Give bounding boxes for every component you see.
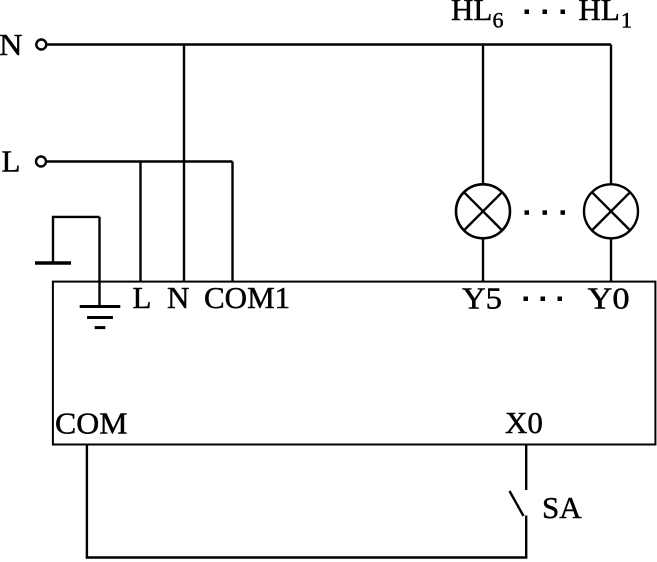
svg-text:X0: X0 [505, 405, 543, 440]
lamp HL6 [456, 184, 510, 238]
svg-text:L: L [133, 280, 152, 315]
terminal N [0, 27, 46, 62]
svg-text:Y5: Y5 [462, 281, 502, 316]
svg-text:SA: SA [542, 490, 582, 525]
label HL1 [579, 0, 633, 33]
wire bottom return [86, 556, 528, 558]
svg-text:HL: HL [579, 0, 620, 27]
svg-text:COM1: COM1 [204, 280, 290, 315]
svg-text:L: L [2, 144, 21, 179]
wire lamp HL1 feeder [610, 45, 612, 185]
wire N bus [47, 43, 611, 45]
dots between lamps [525, 210, 566, 215]
svg-text:HL: HL [451, 0, 492, 27]
wire N drop to PLC N terminal [183, 45, 185, 282]
ground symbol [80, 307, 121, 328]
switch SA blade [510, 491, 524, 516]
wire COM1 drop to PLC COM1 terminal [231, 162, 233, 282]
wire L bus [47, 160, 233, 162]
wire lamp HL1 to Y0 [610, 238, 612, 281]
wire L drop to PLC L terminal [139, 162, 141, 282]
svg-text:Y0: Y0 [588, 281, 630, 316]
wire earth top run [52, 216, 100, 218]
svg-text:COM: COM [55, 406, 128, 441]
wire COM drop [86, 445, 88, 559]
wire X0 drop to switch [525, 445, 527, 491]
dots between Y5 and Y0 [524, 297, 563, 302]
svg-text:6: 6 [493, 8, 504, 33]
label HL6 [451, 0, 504, 33]
dots between HL6 and HL1 [525, 10, 566, 15]
lamp HL1 [584, 184, 638, 238]
earth electrode bar [35, 261, 71, 265]
wire lamp HL6 feeder [482, 45, 484, 185]
svg-text:N: N [167, 280, 189, 315]
svg-text:N: N [0, 27, 22, 62]
terminal L [2, 144, 47, 179]
svg-text:1: 1 [621, 8, 632, 33]
wire earth riser [52, 217, 54, 262]
wire switch to bottom return [525, 516, 527, 559]
wire earth drop to PLC ground [98, 217, 100, 307]
PLC box [53, 282, 656, 445]
wire lamp HL6 to Y5 [482, 238, 484, 281]
